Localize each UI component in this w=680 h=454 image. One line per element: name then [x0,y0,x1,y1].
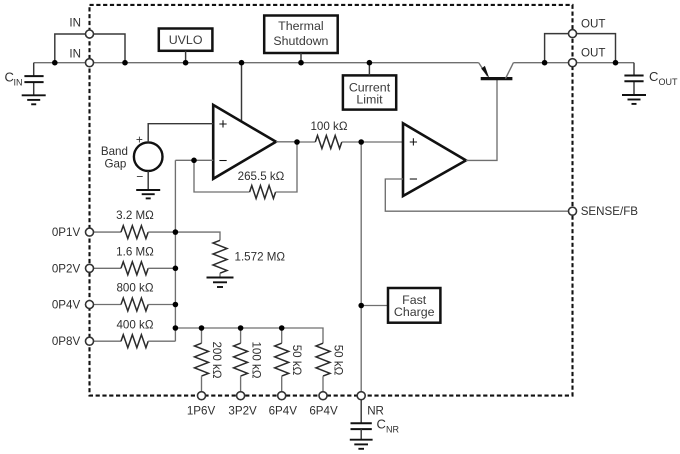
junction dot NR line top [358,139,364,145]
svg-text:Shutdown: Shutdown [273,34,328,48]
pin 6P4V (A) [278,392,286,400]
svg-text:Thermal: Thermal [278,19,323,33]
wire: 1.572M to ground [219,273,221,277]
svg-text:+: + [409,134,418,151]
block UVLO [159,29,213,51]
svg-text:0P4V: 0P4V [52,299,81,312]
resistor 50k A [275,343,289,376]
op-amp U1 (error amplifier) [213,105,276,179]
ground (COUT) [622,95,646,104]
capacitor CIN [24,76,43,82]
wire: OUT top pin jumper inside [545,34,573,63]
svg-text:1P6V: 1P6V [187,405,216,418]
svg-text:C: C [649,69,658,84]
wire: U2 - input to SENSE/FB [385,179,568,211]
op-amp U1 power stem [241,63,243,122]
transistor Q1 base bar [481,77,513,80]
pin 0P1V [86,228,94,236]
pin OUT (top) [569,30,577,38]
ground (CIN) [22,95,46,104]
pin 0P2V [86,264,94,272]
svg-text:+: + [219,116,228,133]
wire: Thermal Shutdown stem [300,53,302,63]
svg-text:Gap: Gap [104,158,126,171]
svg-text:100 kΩ: 100 kΩ [250,341,263,378]
wire: R 200k top lead [201,328,203,343]
svg-text:SENSE/FB: SENSE/FB [581,205,639,218]
svg-text:Limit: Limit [356,93,383,107]
resistor 1.6M [121,262,148,275]
svg-text:6P4V: 6P4V [269,405,298,418]
svg-text:−: − [219,153,228,170]
svg-text:−: − [409,171,418,188]
svg-text:C: C [377,417,386,432]
svg-text:Band: Band [101,145,128,158]
svg-text:Charge: Charge [394,305,435,319]
svg-text:IN: IN [69,16,81,29]
wire: bus to 1.572M [175,232,220,240]
pin IN (bottom) [86,59,94,67]
svg-text:400 kΩ: 400 kΩ [116,318,153,331]
wire: R 50k B bottom lead [322,376,324,392]
label Band Gap [101,145,128,171]
wire: 1.6M to bus [148,267,175,269]
wire: 0P8V row [94,340,122,342]
wire: feedback bus vertical [174,160,176,341]
svg-text:200 kΩ: 200 kΩ [210,341,223,378]
wire: 3.2M to bus [148,231,175,233]
capacitor CNR stem [360,400,362,423]
svg-text:C: C [5,70,14,85]
wire: COUT to ground [633,81,635,95]
wire: input rail (VIN) [34,62,479,64]
wire: Fast Charge tap [361,305,388,307]
ground (CNR) [350,440,373,449]
label CIN [5,70,23,88]
svg-text:IN: IN [14,78,23,88]
transistor Q1 emitter [479,63,488,76]
pin 6P4V (B) [319,392,327,400]
pin OUT (bottom) [569,59,577,67]
resistor 3.2M [121,226,148,239]
voltage reference: band gap source [134,132,163,183]
transistor Q1 collector [506,63,514,79]
svg-text:−: − [136,170,143,184]
wire: band gap ground stem [147,171,149,190]
wire: R 200k bottom lead [201,376,203,392]
svg-text:0P2V: 0P2V [52,262,81,275]
ground (1.572M) [207,278,234,288]
svg-text:100 kΩ: 100 kΩ [310,120,347,133]
wire: output rail to COUT [513,62,634,64]
wire: Current Limit stem [368,63,370,76]
pin SENSE/FB [569,207,577,215]
wire: 265.5k to output node [276,142,297,192]
svg-text:3P2V: 3P2V [228,405,257,418]
label CNR [377,417,400,435]
wire: CIN drop [33,63,35,76]
svg-text:IN: IN [69,48,81,61]
svg-text:UVLO: UVLO [169,33,203,47]
wire: OUT top pin jumper outside [573,34,616,63]
wire: IN top pin jumper right [90,34,126,63]
svg-text:265.5 kΩ: 265.5 kΩ [238,170,285,183]
junction dots feedback bus [173,229,179,235]
svg-text:1.6 MΩ: 1.6 MΩ [116,245,154,258]
svg-text:50 kΩ: 50 kΩ [290,345,303,376]
svg-text:6P4V: 6P4V [309,405,338,418]
wire: 0P1V row [94,231,122,233]
wire: R 100k top lead [240,328,242,343]
junction dot U1 output node [294,139,300,145]
wire: 800k to bus [148,304,175,306]
svg-text:OUT: OUT [581,18,605,31]
resistor 100k (ladder) [234,343,248,376]
pin 1P6V [198,392,206,400]
wire: 100k to U2 + input [342,141,403,143]
junction dot U1 - input [191,158,197,164]
ground (band gap) [136,190,160,198]
wire: R 100k bottom lead [240,376,242,392]
svg-text:NR: NR [386,425,399,435]
resistor 200k [195,343,209,376]
wire: 0P2V row [94,267,122,269]
block Fast Charge [388,288,440,323]
svg-text:50 kΩ: 50 kΩ [332,345,345,376]
dashed IC boundary [90,5,573,396]
transistor Q1 emitter arrow [481,66,489,78]
capacitor COUT [624,76,643,82]
svg-text:NR: NR [367,405,384,418]
pin 0P4V [86,301,94,309]
svg-text:800 kΩ: 800 kΩ [116,282,153,295]
label COUT [649,69,678,87]
wire: CNR to ground [360,429,362,440]
wire: U1 output [276,141,297,143]
wire: SENSE node vertical (NR line) [360,142,362,392]
svg-text:OUT: OUT [581,46,605,59]
wire: U1 - input [175,159,213,161]
pin 3P2V [237,392,245,400]
resistor 400k [121,335,148,348]
svg-text:OUT: OUT [659,77,679,87]
pin IN (top) [86,30,94,38]
svg-text:+: + [136,132,143,146]
wire: R 50k bottom lead [281,376,283,392]
resistor 800k [121,298,148,311]
wire: ladder top rail [175,328,323,343]
junction dot Fast Charge tap [358,303,364,309]
junction dots on input rail [52,60,58,66]
resistor 100k [315,136,342,149]
svg-text:0P1V: 0P1V [52,226,81,239]
junction dots on output rail [542,60,548,66]
pin NR [357,392,365,400]
wire: U2 output to pass transistor base [466,79,497,161]
wire: UVLO stem [185,51,187,63]
svg-text:3.2 MΩ: 3.2 MΩ [116,209,154,222]
wire: CIN to ground [33,82,35,95]
svg-text:0P8V: 0P8V [52,335,81,348]
op-amp U2 (buffer) [403,123,466,196]
wire: 400k to bus [148,340,175,342]
junction dots ladder rail [199,325,205,331]
resistor 1.572M [213,240,227,273]
wire: feedback drop from - input [194,160,250,192]
wire: 0P4V row [94,304,122,306]
resistor 265.5k [250,186,276,199]
wire: IN top pin jumper left [55,34,90,63]
pin 0P8V [86,337,94,345]
wire: output node to 100k [297,141,315,143]
capacitor CNR [351,423,372,429]
wire: COUT drop [633,63,635,76]
wire: band gap to U1 + input [148,124,213,143]
block Thermal Shutdown [264,16,338,54]
wire: R 50k top lead [281,328,283,343]
svg-text:1.572 MΩ: 1.572 MΩ [235,251,286,264]
resistor 50k B [316,343,330,376]
block Current Limit [343,75,396,109]
